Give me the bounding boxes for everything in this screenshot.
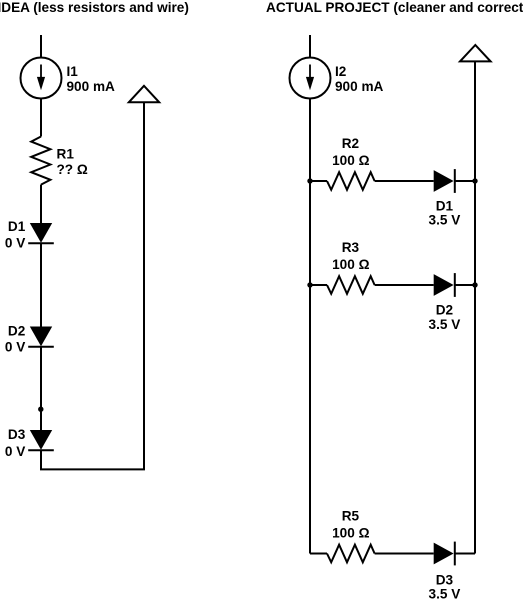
junction dot: left rail / branch 2 bbox=[307, 282, 312, 287]
junction dot: right rail / branch 1 bbox=[472, 178, 477, 183]
svg-text:0 V: 0 V bbox=[5, 444, 25, 459]
svg-text:I1: I1 bbox=[67, 64, 79, 79]
svg-text:R1: R1 bbox=[57, 147, 75, 162]
wire: top of I2 bbox=[309, 35, 311, 58]
wire: top of I1 bbox=[40, 35, 42, 58]
svg-text:R3: R3 bbox=[342, 240, 360, 255]
diode D3 (right circuit) bbox=[434, 542, 455, 566]
current source I2 bbox=[290, 58, 331, 99]
wire: branch 3 middle bbox=[375, 553, 434, 555]
wire: D1 to D2 bbox=[40, 243, 42, 326]
svg-text:D2: D2 bbox=[8, 324, 26, 339]
svg-text:R5: R5 bbox=[342, 509, 360, 524]
svg-text:ACTUAL PROJECT (cleaner and co: ACTUAL PROJECT (cleaner and correct) bbox=[266, 0, 523, 15]
resistor R2 bbox=[327, 172, 375, 190]
wire: branch 1 middle bbox=[375, 180, 434, 182]
diode D3 bbox=[28, 430, 54, 450]
wire: R1 to D1 bbox=[40, 185, 42, 223]
wire: branch 3 left bbox=[310, 553, 327, 555]
wire: branch 3 right bbox=[455, 553, 475, 555]
svg-text:100 Ω: 100 Ω bbox=[332, 526, 369, 541]
svg-text:D2: D2 bbox=[436, 303, 454, 318]
svg-text:I2: I2 bbox=[335, 64, 347, 79]
svg-text:R2: R2 bbox=[342, 136, 360, 151]
svg-text:100 Ω: 100 Ω bbox=[332, 257, 369, 272]
svg-text:900 mA: 900 mA bbox=[335, 79, 384, 94]
node dot between D2 and D3 bbox=[38, 407, 43, 412]
wire: branch 2 right bbox=[455, 284, 475, 286]
svg-text:3.5 V: 3.5 V bbox=[429, 587, 461, 600]
svg-text:D1: D1 bbox=[436, 199, 454, 214]
resistor R3 bbox=[327, 276, 375, 294]
svg-text:100 Ω: 100 Ω bbox=[332, 153, 369, 168]
diode D2 bbox=[28, 327, 54, 347]
svg-text:D3: D3 bbox=[436, 573, 454, 588]
current source I1 bbox=[21, 58, 62, 99]
junction dot: right rail / branch 2 bbox=[472, 282, 477, 287]
wire: right rail of right circuit bbox=[474, 61, 476, 553]
svg-text:0 V: 0 V bbox=[5, 340, 25, 355]
svg-text:D1: D1 bbox=[8, 219, 26, 234]
svg-text:3.5 V: 3.5 V bbox=[429, 317, 461, 332]
net symbol (up triangle, left circuit) bbox=[129, 86, 159, 103]
diode D1 bbox=[28, 223, 54, 243]
svg-text:900 mA: 900 mA bbox=[67, 79, 116, 94]
resistor R1 bbox=[31, 137, 50, 185]
junction dot: left rail / branch 1 bbox=[307, 178, 312, 183]
wire: D2 to D3 bbox=[40, 347, 42, 430]
svg-text:D3: D3 bbox=[8, 427, 26, 442]
wire: D3 down, bottom run and right rail up bbox=[41, 102, 144, 469]
wire: branch 2 left bbox=[310, 284, 327, 286]
wire: branch 1 right bbox=[455, 180, 475, 182]
svg-text:?? Ω: ?? Ω bbox=[57, 162, 88, 177]
svg-text:0 V: 0 V bbox=[5, 236, 25, 251]
svg-text:IDEA (less resistors and wire): IDEA (less resistors and wire) bbox=[0, 0, 189, 15]
wire: left rail of right circuit bbox=[309, 99, 311, 554]
wire: branch 2 middle bbox=[375, 284, 434, 286]
diode D2 (right circuit) bbox=[434, 273, 455, 297]
wire: I1 to R1 bbox=[40, 99, 42, 137]
net symbol (up triangle, right circuit) bbox=[460, 45, 491, 61]
diode D1 (right circuit) bbox=[434, 169, 455, 193]
resistor R5 bbox=[327, 545, 375, 563]
wire: branch 1 left bbox=[310, 180, 327, 182]
svg-text:3.5 V: 3.5 V bbox=[429, 213, 461, 228]
